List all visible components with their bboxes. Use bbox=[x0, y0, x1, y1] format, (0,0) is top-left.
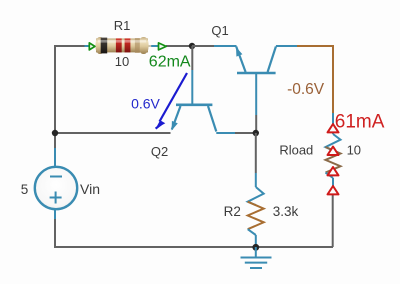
wire left rail vertical (top corner down to mid node) bbox=[54, 45, 56, 133]
wire Rload bottom teal stub bbox=[332, 178, 334, 186]
wire R2 top (gray then teal) bbox=[255, 133, 257, 173]
svg-text:-0.6V: -0.6V bbox=[287, 81, 325, 98]
wire top-left horizontal (left rail corner to R1 left lead) bbox=[55, 45, 85, 47]
wire right rail lower (gray) bbox=[332, 195, 334, 247]
node center (Q1 base / Q2 collector / R2) bbox=[253, 130, 259, 136]
svg-text:10: 10 bbox=[347, 143, 361, 158]
svg-text:Q1: Q1 bbox=[211, 23, 228, 38]
wire Vin bottom stub (teal) bbox=[54, 209, 56, 219]
current arrow marker right of R1 (green) bbox=[159, 43, 167, 50]
transistor Q2 bbox=[172, 70, 217, 132]
wire Q2 base upper segment (gray) bbox=[191, 46, 193, 70]
node at top (R1 / Q2 base / Q1 emitter wire) bbox=[189, 43, 195, 49]
voltage source Vin bbox=[35, 167, 77, 209]
wire left rail to Vin top (gray then teal) bbox=[54, 133, 56, 148]
annotation arrow 0.6V (blue) bbox=[160, 73, 188, 122]
R1 right lead wire (stub, teal, gray) bbox=[149, 45, 153, 47]
current flow triangle 1 (red) bbox=[328, 124, 339, 132]
wire top node to Q1 emitter corner (gray then teal) bbox=[192, 45, 214, 47]
current flow triangle 2 (red) bbox=[328, 147, 339, 155]
current flow triangle 4 (red) bbox=[328, 186, 339, 194]
wire mid horizontal (left node to Q2 emitter) bbox=[55, 132, 171, 134]
node bottom (ground junction) bbox=[252, 244, 259, 251]
resistor R1 (pictorial) bbox=[96, 37, 149, 54]
svg-text:61mA: 61mA bbox=[335, 112, 385, 133]
svg-text:3.3k: 3.3k bbox=[273, 204, 299, 219]
wire R2 bottom (teal) bbox=[255, 235, 257, 247]
svg-text:R1: R1 bbox=[114, 18, 131, 33]
ground bbox=[241, 247, 272, 268]
wire Vin bottom to bottom rail corner bbox=[55, 219, 56, 246]
svg-text:10: 10 bbox=[115, 54, 129, 69]
wire Q2 collector to center node (teal then gray) bbox=[216, 132, 235, 134]
svg-text:5: 5 bbox=[21, 182, 29, 197]
svg-text:Vin: Vin bbox=[80, 181, 100, 197]
svg-text:Q2: Q2 bbox=[151, 144, 168, 159]
svg-text:Rload: Rload bbox=[279, 143, 313, 158]
svg-text:0.6V: 0.6V bbox=[131, 95, 160, 111]
svg-text:R2: R2 bbox=[224, 204, 241, 219]
resistor R2 (zigzag) bbox=[248, 187, 264, 235]
svg-text:62mA: 62mA bbox=[149, 54, 191, 71]
wire Q1 collector to top-right (teal then brown) bbox=[276, 45, 297, 47]
node mid-left (left rail / mid wire) bbox=[52, 130, 58, 136]
wire right rail down (brown) bbox=[332, 45, 334, 113]
resistor Rload (zigzag) bbox=[326, 134, 341, 178]
transistor Q1 bbox=[236, 47, 276, 116]
current arrow marker left of R1 (green) bbox=[89, 43, 95, 50]
wire right rail teal segment above Rload bbox=[332, 113, 334, 134]
current flow triangle 3 (red) bbox=[328, 167, 339, 175]
wire Q1 base lower segment (gray) bbox=[255, 115, 257, 133]
wire bottom rail horizontal bbox=[54, 246, 333, 248]
